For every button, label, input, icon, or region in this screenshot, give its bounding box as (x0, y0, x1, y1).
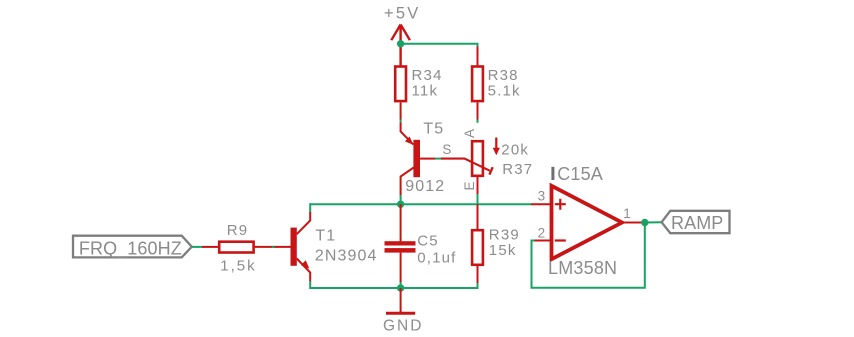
svg-text:R38: R38 (488, 67, 519, 84)
resistor R34 (395, 67, 406, 102)
xref flag RAMP (662, 211, 730, 233)
wire main node net top (310, 203, 531, 205)
transistor T1 emitter arrow (301, 260, 310, 268)
node GND junction dot (397, 284, 404, 291)
label IC15A (551, 167, 554, 180)
potentiometer R37 wiper wire (441, 159, 490, 171)
wire feedback net (532, 223, 645, 288)
node C5 top junction dot (397, 201, 404, 208)
resistor R9 (219, 242, 253, 253)
svg-text:0,1uf: 0,1uf (417, 250, 456, 267)
wire net R39 bottom stub (477, 283, 479, 289)
potentiometer R37 body (472, 141, 483, 176)
wire R38 top pin (477, 47, 479, 67)
op-amp IC15A triangle (552, 186, 623, 259)
capacitor C5 bottom plate (385, 248, 416, 253)
svg-text:A: A (462, 129, 477, 138)
transistor T5 emitter pin (401, 123, 414, 145)
wire R39 top pin (477, 204, 479, 229)
transistor T5 emitter arrow (405, 137, 413, 145)
transistor T5 collector pin (401, 168, 414, 196)
node output junction dot (641, 219, 648, 226)
svg-text:3: 3 (538, 188, 546, 203)
wire op-amp pin3 (531, 203, 552, 205)
transistor T5 base bar (413, 140, 420, 177)
wire C5 bottom pin (400, 253, 402, 283)
supply +5V arrow symbol (391, 25, 410, 66)
svg-text:9012: 9012 (405, 178, 445, 195)
svg-text:R9: R9 (227, 222, 249, 239)
wire R39 bottom pin (477, 266, 479, 284)
capacitor C5 top plate (385, 241, 416, 245)
wire op-amp pin2 (534, 240, 552, 242)
wire R34 bottom pin (400, 103, 402, 121)
xref flag FRQ_160HZ (73, 236, 192, 258)
wire op-amp output pin (621, 222, 645, 224)
wire R38 bottom pin (477, 103, 479, 121)
wire net R34-T5 stub (400, 120, 402, 123)
ground GND symbol (400, 288, 402, 313)
transistor T1 collector pin (297, 212, 311, 234)
wire net R9-T1 tick (272, 246, 275, 248)
wire net T1 emitter stub (309, 281, 311, 289)
svg-text:T1: T1 (315, 227, 336, 244)
svg-text:RAMP: RAMP (671, 213, 723, 233)
svg-text:C15A: C15A (557, 164, 603, 184)
potentiometer R37 wiper end dash (489, 167, 492, 174)
wire net flag stub (192, 246, 203, 248)
transistor T1 emitter pin (297, 259, 311, 282)
svg-text:T5: T5 (423, 120, 444, 137)
svg-text:1,5k: 1,5k (220, 257, 256, 274)
svg-text:R37: R37 (502, 161, 533, 178)
svg-text:+5V: +5V (384, 5, 420, 23)
wire net C5-GND stub (400, 282, 402, 288)
svg-text:5.1k: 5.1k (488, 83, 521, 100)
op-amp minus marker (555, 239, 566, 241)
node +5V junction dot (397, 40, 404, 47)
svg-text:FRQ_160HZ: FRQ_160HZ (79, 238, 182, 259)
svg-text:11k: 11k (412, 83, 439, 100)
potentiometer R37 adjust arrow (495, 138, 497, 150)
wire C5 top pin (400, 204, 402, 241)
svg-text:1: 1 (623, 206, 631, 221)
wire net base-S stub (435, 158, 441, 160)
wire net T5 collector stub (400, 195, 402, 204)
wire bottom node net (310, 287, 477, 289)
wire net R38-R37 stub (477, 120, 479, 123)
wire R9 right pin (255, 246, 291, 248)
svg-text:2: 2 (538, 226, 546, 241)
resistor R38 (472, 67, 483, 102)
wire output net (645, 221, 662, 223)
wire net R37-node stub (477, 194, 479, 204)
op-amp plus marker (555, 199, 566, 210)
svg-text:R34: R34 (412, 67, 443, 84)
wire R9 left pin (202, 246, 218, 248)
resistor R39 (472, 230, 483, 265)
wire net +5V horizontal (401, 44, 478, 48)
svg-text:E: E (462, 181, 477, 190)
wire R37 E pin (477, 177, 479, 195)
svg-text:GND: GND (383, 318, 423, 335)
svg-text:20k: 20k (501, 142, 529, 159)
svg-text:2N3904: 2N3904 (315, 248, 378, 265)
wire net T1 collector stub (309, 203, 311, 212)
svg-text:LM358N: LM358N (548, 258, 617, 278)
transistor T5 base pin (420, 158, 436, 160)
svg-text:15k: 15k (489, 242, 517, 259)
svg-text:S: S (442, 142, 451, 157)
transistor T1 base bar (291, 228, 297, 266)
svg-text:C5: C5 (417, 232, 439, 249)
